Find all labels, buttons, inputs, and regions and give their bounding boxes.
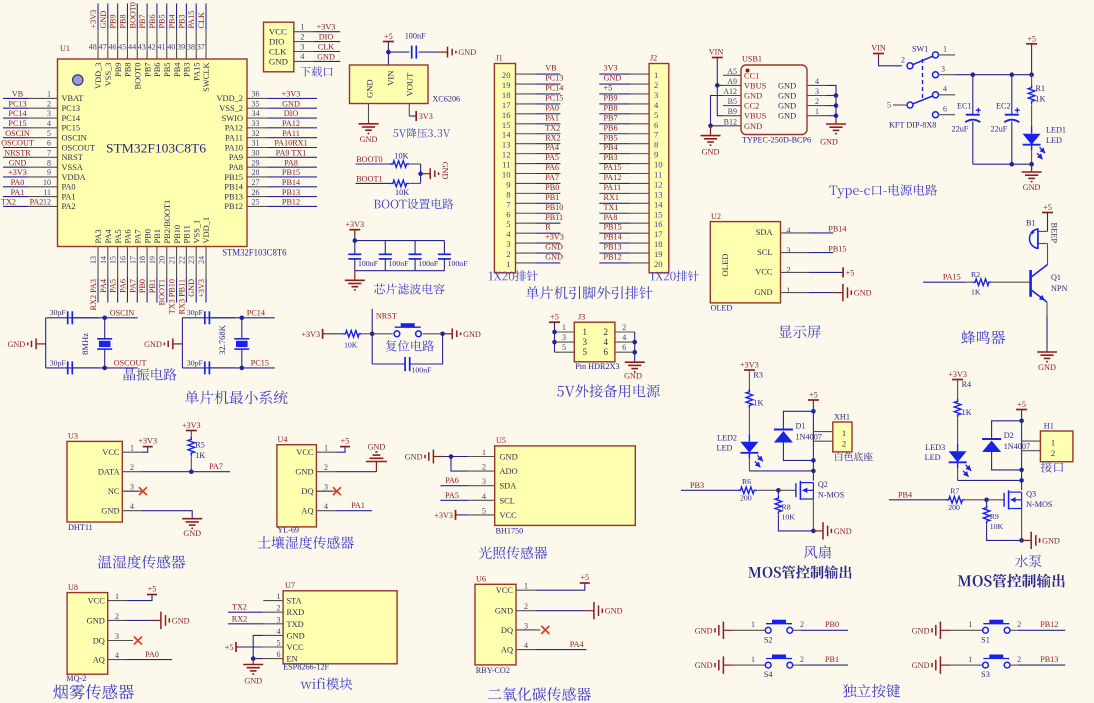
node OSCOUT [102,366,107,371]
svg-text:1: 1 [482,448,486,457]
svg-text:1: 1 [654,70,658,80]
svg-text:2: 2 [901,56,905,65]
wire net PA9 TX1 to U1 pin 30 [267,156,317,158]
wire VCC to +3V3 [142,447,148,453]
wire net VB to U1 pin 1 [3,97,28,99]
wire net PA12 to U1 pin 33 [267,127,317,129]
U1 right pin 36 VDD_2 [247,97,267,99]
wire net RX2 J1 pin 13 [535,143,561,145]
svg-text:2: 2 [524,602,528,611]
capacitor EC2 22uF [1011,75,1013,115]
svg-text:PB14: PB14 [604,233,622,242]
ground GND pump [1022,539,1031,541]
svg-text:3: 3 [324,483,328,492]
wire net PC13 to U1 pin 2 [3,107,28,109]
svg-text:PB9: PB9 [114,63,123,77]
wire net PB14 [809,232,834,234]
junction EC1 top [971,72,976,77]
svg-text:GND: GND [282,99,300,108]
svg-text:PB14: PB14 [282,178,300,187]
resistor R9 10K [986,500,988,505]
svg-text:10: 10 [502,170,511,180]
svg-text:TX2: TX2 [545,123,560,132]
svg-text:+5: +5 [846,268,855,277]
wire net PB3 to U1 pin 39 [185,4,187,30]
wire +5 vertical J3 [554,322,556,352]
svg-text:OSCOUT: OSCOUT [114,358,147,367]
svg-text:PB6: PB6 [604,123,618,132]
junction EC2 bottom [1010,162,1015,167]
transistor Q2 N-MOS [795,483,797,497]
svg-text:GND: GND [1042,536,1060,545]
svg-text:1: 1 [300,23,304,32]
U1 right pin 28 PB15 [247,176,267,178]
svg-text:GND: GND [778,92,796,101]
svg-text:U7: U7 [285,581,295,590]
svg-text:PB3: PB3 [690,481,704,490]
label display title [779,325,821,338]
connector J1 1x20 header body [494,64,515,273]
wire net PB5 to U1 pin 41 [166,4,168,30]
svg-text:10K: 10K [394,152,408,161]
svg-text:PB3: PB3 [177,14,186,28]
svg-text:11: 11 [43,188,51,197]
svg-text:4: 4 [130,502,134,511]
svg-text:AQ: AQ [93,656,105,665]
node NRST [370,332,375,337]
svg-text:PB1: PB1 [148,279,157,293]
svg-text:VDD_3: VDD_3 [94,63,103,90]
svg-text:GND: GND [7,340,25,349]
U1 left pin 3 PC14 [28,117,57,119]
svg-text:1K: 1K [753,399,763,408]
svg-text:PA7: PA7 [128,279,137,293]
svg-text:BOOT0: BOOT0 [128,2,137,28]
wire net PA8 to U1 pin 29 [267,166,317,168]
wire net +3V3 [313,31,340,33]
wire net +3V3 J1 pin 3 [535,242,561,244]
svg-text:1: 1 [842,428,846,438]
svg-text:PA1: PA1 [351,501,365,510]
svg-text:10K: 10K [990,522,1004,531]
svg-text:PB13: PB13 [282,188,300,197]
svg-text:PA4: PA4 [104,229,113,244]
U1 left pin 8 VSSA [28,166,57,168]
crystal 8MHz [104,318,106,339]
wire net PA1 to U1 pin 11 [3,196,28,198]
svg-text:DIO: DIO [319,33,334,42]
svg-text:GND: GND [1023,183,1041,192]
svg-text:U8: U8 [68,583,78,592]
U1 bottom pin 13 PA3 [97,247,99,278]
svg-text:2: 2 [787,266,791,275]
svg-text:30pF: 30pF [187,358,204,367]
label 5V backup power title [557,384,660,397]
crystal 32.768K [241,318,243,339]
connector H1 body [1040,431,1073,462]
svg-text:1: 1 [968,620,972,629]
wire net DIO [313,41,340,43]
svg-text:GND: GND [500,453,518,462]
svg-text:PB0: PB0 [825,620,839,629]
svg-text:9: 9 [506,179,510,189]
svg-text:PC15: PC15 [62,124,81,133]
power port 3V3 [415,111,417,121]
svg-text:2: 2 [482,463,486,472]
wire net PB11 J1 pin 5 [535,222,561,224]
svg-text:PB4: PB4 [604,143,618,152]
wire net PB13 [1018,664,1066,666]
svg-text:PB8: PB8 [604,103,618,112]
svg-text:TYPEC-250D-BCP6: TYPEC-250D-BCP6 [742,136,811,145]
U1 top pin 45 PB8 [126,29,128,59]
svg-text:PB11: PB11 [545,213,563,222]
svg-text:VCC: VCC [755,268,773,277]
svg-text:PB5: PB5 [158,14,167,28]
svg-text:3: 3 [47,109,51,118]
svg-text:PA9 TX1: PA9 TX1 [276,149,307,158]
wire net BOOT1 to U1 pin 20 [166,278,168,303]
wire reset bottom loop [410,334,443,364]
svg-text:PB15: PB15 [224,173,243,182]
wire net PB0 J1 pin 8 [535,192,561,194]
wire gnd to button S4 [733,664,758,666]
svg-text:VIN: VIN [709,48,724,57]
junction +5 node [386,50,391,55]
wire +3V3 to resistor [327,333,343,335]
ground GND regulator [368,122,370,124]
svg-text:1: 1 [943,45,947,54]
svg-text:VCC: VCC [296,448,314,457]
svg-text:LED3: LED3 [925,443,945,452]
svg-text:2: 2 [842,438,846,448]
svg-text:VBUS: VBUS [744,112,767,121]
junction USB right gnd [834,113,839,118]
svg-text:RX2: RX2 [232,614,247,623]
svg-text:PA6: PA6 [445,476,459,485]
svg-text:+5: +5 [341,437,350,446]
svg-text:SCL: SCL [500,496,515,505]
wire +5 to buzzer [1047,213,1049,232]
junction diode top [811,409,816,414]
svg-text:20: 20 [502,70,511,80]
wire net PA15 to U1 pin 38 [195,4,197,30]
svg-text:GND: GND [912,626,930,635]
capacitor 100nF filter 3 [414,241,416,255]
svg-text:CLK: CLK [269,47,287,57]
junction source gnd rail pump [1019,538,1024,543]
resistor 10K BOOT1 [390,180,409,187]
U1 right pin 29 PA8 [247,166,267,168]
ground GND power circuit [1031,164,1033,172]
U1 bottom pin 20 PB2/BOOT1 [166,247,168,278]
diode D1 1N4007 [774,429,793,431]
transistor Q3 N-MOS [1003,493,1005,507]
svg-text:1K: 1K [962,408,972,417]
wire +5 to connector and drain [812,400,814,481]
capacitor 100nF reset [404,357,406,371]
wire net TX2 to RXD [228,611,263,613]
svg-text:LED: LED [716,444,732,453]
svg-text:VSS_1: VSS_1 [192,220,201,244]
XC6206 GND pin [368,104,370,123]
svg-text:EC2: EC2 [996,102,1011,111]
wire Q2 source to ground rail [812,498,814,531]
svg-text:PB5: PB5 [163,63,172,77]
capacitor 100nF regulator input [411,46,413,59]
svg-text:2: 2 [622,323,626,332]
svg-text:VCC: VCC [287,643,305,652]
svg-text:3V3: 3V3 [419,112,433,121]
svg-text:PB13: PB13 [604,243,622,252]
sensor U6 RBY-CO2 body [475,584,516,665]
svg-text:PC15: PC15 [251,358,269,367]
wire net 3V3 J2 pin 1 [599,73,629,75]
ground GND U4 (hanging earth) [366,461,387,463]
ground GND USB left [710,126,712,136]
svg-text:GND: GND [99,11,108,29]
svg-text:30: 30 [252,149,260,158]
svg-text:A12: A12 [723,87,737,96]
wire net +3V3 to U1 pin 36 [267,97,317,99]
svg-text:VIN: VIN [871,44,886,53]
wire net PA0 J1 pin 16 [535,113,561,115]
svg-text:VCC: VCC [88,597,106,606]
power port +5 U7 [235,642,237,652]
svg-text:2: 2 [1017,620,1021,629]
wire net BOOT0 to U1 pin 44 [136,4,138,30]
svg-text:GND: GND [441,162,450,180]
wire Q1 emitter to ground [1046,302,1048,315]
svg-text:13: 13 [89,256,98,264]
svg-text:28: 28 [252,168,260,177]
U1 bottom pin 24 VDD_1 [205,247,207,278]
svg-text:R7: R7 [950,487,959,496]
svg-text:PA4: PA4 [570,640,584,649]
sensor U4 YL-69 body [277,445,317,527]
svg-text:TX3 PB10: TX3 PB10 [168,279,177,314]
resistor R7 200 [946,497,965,504]
svg-text:PC14: PC14 [8,109,26,118]
svg-text:D2: D2 [1004,431,1014,440]
svg-text:5: 5 [47,129,51,138]
U1 top pin 37 SWCLK [205,29,207,59]
regulator U XC6206 body [350,65,429,104]
capacitor 30pF bottom [204,361,206,374]
wire net BOOT1 [356,182,391,184]
svg-text:5: 5 [654,110,658,120]
svg-text:1K: 1K [971,288,981,297]
wire LED2 cathode to drain rail [748,459,750,471]
svg-text:1K: 1K [1036,95,1046,104]
svg-text:PB15: PB15 [282,168,300,177]
svg-text:+5: +5 [604,84,613,93]
wire net PC13 J1 pin 19 [535,83,561,85]
capacitor 100nF filter 4 [443,241,445,255]
push button S1 [975,629,983,631]
junction J3 left pin3 [552,340,557,345]
wire net PA7 [142,471,230,473]
svg-text:4: 4 [300,52,305,61]
ground GND U3 [191,518,193,519]
junction LED bottom [1029,162,1034,167]
svg-text:12: 12 [43,198,51,207]
svg-text:+3V3: +3V3 [182,421,201,430]
wire net PB12 to U1 pin 25 [267,205,317,207]
capacitor 30pF top [204,311,206,324]
junction USB right gnd [834,103,839,108]
svg-text:TX2: TX2 [1,198,16,207]
wire net GND [313,60,340,62]
svg-text:1K: 1K [195,451,205,460]
svg-text:20: 20 [158,256,167,264]
resistor R3 1K [748,370,750,389]
svg-text:2: 2 [506,249,510,259]
svg-text:1: 1 [583,327,588,337]
U1 bottom pin 16 PA6 [126,247,128,278]
U1 top pin 40 PB4 [176,29,178,59]
wire GND U8 [127,619,151,621]
U1 top pin 47 VSS_3 [107,29,109,59]
wire net R J1 pin 4 [535,232,561,234]
wire +5 to connector and drain [1021,410,1023,491]
svg-text:PB11: PB11 [183,225,192,243]
svg-text:PA1: PA1 [545,113,559,122]
op-amp U1 STM32F103C8T6 body [58,59,248,247]
svg-text:TX2: TX2 [232,603,247,612]
ground GND at input cap [438,51,447,53]
svg-text:3V3: 3V3 [604,64,618,73]
wire net CLK to U1 pin 37 [205,4,207,30]
wire net GND to U1 pin 23 [195,278,197,303]
push button reset S [372,333,393,335]
svg-text:17: 17 [502,100,511,110]
svg-text:SW1: SW1 [912,45,928,54]
svg-text:2: 2 [800,620,804,629]
svg-text:16: 16 [118,256,127,264]
svg-text:1: 1 [562,323,566,332]
svg-text:PA7: PA7 [209,462,223,471]
svg-text:45: 45 [118,43,126,52]
ground GND OLED [833,292,842,294]
resistor 10K reset [343,331,362,338]
wire net PB0 [801,629,849,631]
wire net BOOT0 [356,163,391,165]
svg-text:3: 3 [524,621,528,630]
wire VIN to SW1 pin2 [879,58,903,66]
label wifi module title [300,678,352,690]
svg-text:2: 2 [1051,448,1055,458]
svg-text:PA4: PA4 [545,143,559,152]
svg-text:GND: GND [834,527,852,536]
svg-text:PA15: PA15 [192,63,201,81]
wire net +5 J2 pin 3 [599,93,629,95]
svg-text:GND: GND [545,243,563,252]
wire net PB9 J2 pin 4 [599,103,629,105]
svg-text:6: 6 [277,650,281,659]
svg-text:PA3: PA3 [94,229,103,243]
svg-text:29: 29 [252,158,260,167]
svg-text:PC13: PC13 [8,99,26,108]
svg-text:OSCOUT: OSCOUT [62,143,96,152]
svg-text:PA8: PA8 [604,213,618,222]
wire net GND to U1 pin 47 [107,4,109,30]
wire net PB1 to U1 pin 19 [156,278,158,303]
label temp humidity sensor title [98,555,185,569]
svg-text:PA6: PA6 [118,279,127,293]
wire +5 to VIN and capacitor [387,42,389,66]
svg-text:4: 4 [604,337,609,347]
wire net PA1 J1 pin 15 [535,123,561,125]
wire net PB15 J2 pin 17 [599,232,629,234]
svg-text:4: 4 [115,651,119,660]
wire GND U4 [337,471,377,473]
wire BOOT0 resistor to junction [420,164,422,183]
svg-text:PA0: PA0 [11,178,25,187]
svg-text:S3: S3 [981,670,990,679]
svg-text:PA0: PA0 [545,103,559,112]
junction source gnd rail [811,529,816,534]
svg-text:8: 8 [47,158,51,167]
svg-text:GND: GND [368,443,386,452]
junction J3 left pin1 [552,330,557,335]
wire LED3 cathode to drain rail [957,468,959,480]
svg-text:OSCIN: OSCIN [5,129,30,138]
svg-text:GND: GND [183,529,201,538]
svg-text:PB9: PB9 [109,14,118,28]
wire net PA1 [337,510,372,512]
wire NRST vertical [371,309,373,364]
svg-text:GND: GND [9,158,27,167]
svg-text:R1: R1 [1036,84,1046,93]
wire net PB12 J2 pin 20 [599,262,629,264]
svg-text:41: 41 [158,43,166,52]
LED LED3 [957,444,959,452]
power port +3V3 reset [322,329,324,339]
svg-text:OSCIN: OSCIN [110,308,135,317]
svg-text:11: 11 [502,160,510,170]
svg-text:5: 5 [887,101,891,110]
svg-text:PA1: PA1 [62,192,76,201]
label CO2 sensor title [488,687,591,701]
svg-text:U4: U4 [278,435,288,444]
svg-text:3: 3 [815,87,819,96]
svg-text:21: 21 [168,256,177,264]
svg-text:GND: GND [101,507,119,516]
U1 bottom pin 15 PA5 [117,247,119,278]
U1 bottom pin 19 PB1 [156,247,158,278]
svg-text:NPN: NPN [1051,284,1067,293]
svg-text:+3V3: +3V3 [89,10,98,29]
svg-text:2: 2 [800,655,804,664]
svg-text:DATA: DATA [98,468,120,477]
svg-text:3: 3 [562,333,566,342]
diode D2 1N4007 [982,438,1001,440]
svg-text:PC15: PC15 [8,119,26,128]
U1 left pin 10 PA0 [28,186,57,188]
svg-text:B9: B9 [728,107,737,116]
svg-text:GND: GND [244,677,262,686]
svg-text:4: 4 [277,627,281,636]
svg-text:GND: GND [360,135,378,144]
wire net PA11 to U1 pin 32 [267,137,317,139]
svg-text:1: 1 [751,620,755,629]
svg-text:PB14: PB14 [828,225,846,234]
svg-text:OSCOUT: OSCOUT [1,139,34,148]
SW1 pin stubs and numbers [939,54,956,56]
label MOS control output fan [748,565,851,578]
wire net PB8 J2 pin 5 [599,113,629,115]
